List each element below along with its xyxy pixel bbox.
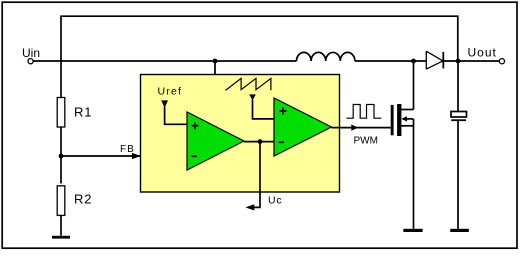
node Uout terminal <box>499 59 504 64</box>
transistor Q1 source stub <box>401 125 414 127</box>
sawtooth arrowhead <box>249 94 256 100</box>
junction dot at MOSFET drain <box>411 59 416 64</box>
comparator U2 <box>274 98 332 156</box>
wire junction to control box top <box>214 61 216 75</box>
op-amp U1 plus sign <box>192 122 199 129</box>
wire R1 to FB junction <box>60 127 62 184</box>
svg-text:R1: R1 <box>74 105 92 120</box>
svg-text:Uc: Uc <box>268 195 282 207</box>
wire source to ground <box>413 119 415 229</box>
wire Uin to inductor <box>33 60 296 62</box>
wire Uc tap down and left <box>254 142 260 208</box>
svg-text:Uout: Uout <box>468 46 497 60</box>
PWM arrowhead <box>351 125 358 131</box>
junction dot Uc node <box>258 139 263 144</box>
svg-text:Uref: Uref <box>158 86 183 98</box>
wire left vertical from top rail to R1 <box>60 16 62 98</box>
transistor Q1 body arrow <box>401 116 407 121</box>
Uref arrowhead <box>161 100 168 107</box>
resistor R1 <box>57 98 65 128</box>
svg-text:PWM: PWM <box>354 136 378 147</box>
wire capacitor to ground <box>457 121 459 229</box>
inductor L1 <box>297 52 355 61</box>
ground bar below capacitor <box>450 229 469 232</box>
svg-text:R2: R2 <box>74 192 92 207</box>
resistor R2 <box>57 186 65 216</box>
junction dot after diode / top rail <box>456 59 461 64</box>
wire sawtooth to comparator non-inverting input <box>253 100 275 119</box>
control IC box <box>141 75 340 193</box>
wire top feedback rail <box>61 16 458 61</box>
ground bar below MOSFET <box>403 229 422 232</box>
transistor Q1 channel bar <box>397 104 401 136</box>
diode D1 <box>426 51 443 69</box>
capacitor C1 top plate <box>451 112 467 118</box>
junction dot FB node <box>59 154 64 159</box>
comparator U2 minus sign <box>279 141 285 143</box>
ground bar below R2 <box>52 236 70 239</box>
wire FB to error amp inverting input <box>61 155 187 157</box>
wire inductor to diode <box>355 60 426 62</box>
op-amp U1 minus sign <box>192 155 198 157</box>
PWM square wave symbol <box>346 105 381 119</box>
wire drain to top node <box>413 61 415 110</box>
svg-text:Uin: Uin <box>22 46 40 60</box>
wire R2 to ground <box>60 215 62 235</box>
transistor Q1 gate bar <box>391 105 394 135</box>
wire top node down to capacitor <box>457 61 459 112</box>
op-amp U1 error amplifier <box>187 112 244 170</box>
Uc arrowhead <box>245 204 254 210</box>
junction dot at oscillator feed <box>213 59 218 64</box>
wire U1 output to comparator inverting input <box>244 141 274 143</box>
transistor Q1 drain stub <box>401 109 414 111</box>
capacitor C1 bottom plate <box>451 119 466 121</box>
wire diode to Uout <box>443 60 499 62</box>
wire comparator output to MOSFET gate (PWM) <box>332 127 391 129</box>
comparator U2 plus sign <box>279 108 286 115</box>
node Uin terminal <box>28 59 33 64</box>
FB arrowhead into control box <box>132 153 141 159</box>
wire Uref to error amp non-inverting input <box>165 107 187 125</box>
sawtooth oscillator symbol <box>226 78 271 90</box>
